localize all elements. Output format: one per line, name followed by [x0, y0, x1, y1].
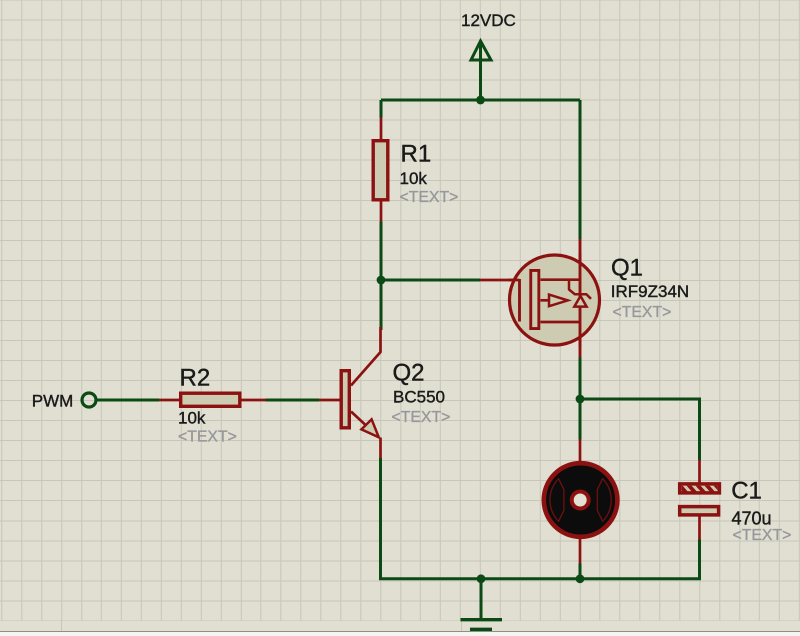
- svg-text:12VDC: 12VDC: [461, 11, 516, 30]
- svg-text:<TEXT>: <TEXT>: [400, 189, 459, 206]
- svg-text:C1: C1: [731, 478, 762, 505]
- svg-text:470u: 470u: [732, 509, 772, 529]
- svg-text:R1: R1: [401, 141, 432, 168]
- svg-text:PWM: PWM: [32, 391, 74, 410]
- svg-text:<TEXT>: <TEXT>: [613, 304, 672, 321]
- svg-text:<TEXT>: <TEXT>: [178, 428, 237, 445]
- svg-text:R2: R2: [180, 365, 211, 392]
- svg-text:10k: 10k: [400, 169, 428, 188]
- svg-text:<TEXT>: <TEXT>: [392, 409, 451, 426]
- svg-text:BC550: BC550: [393, 387, 445, 406]
- svg-text:Q2: Q2: [393, 359, 425, 386]
- svg-text:Q1: Q1: [611, 255, 643, 282]
- svg-text:10k: 10k: [178, 409, 206, 428]
- svg-text:<TEXT>: <TEXT>: [733, 527, 792, 544]
- svg-text:IRF9Z34N: IRF9Z34N: [611, 282, 689, 301]
